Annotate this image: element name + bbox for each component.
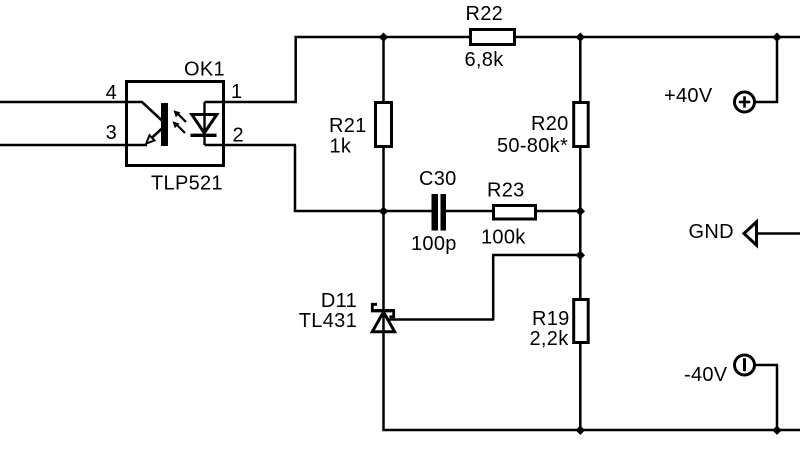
wire pin3 stub inside box: [128, 144, 147, 146]
svg-text:2: 2: [233, 125, 244, 147]
LED cathode bar: [191, 134, 217, 137]
cathode bar: [371, 309, 395, 312]
resistor R19: [574, 300, 589, 343]
svg-text:50-80k*: 50-80k*: [497, 135, 568, 157]
phototransistor emitter arrowhead: [146, 135, 154, 143]
wire GND lead: [756, 232, 800, 235]
svg-text:4: 4: [106, 82, 117, 104]
phototransistor base bar: [161, 103, 168, 146]
resistor R22: [471, 30, 515, 45]
wire R21 bottom: [382, 147, 385, 211]
node R19/bottom rail: [576, 426, 585, 435]
optocoupler OK1 body: [127, 82, 224, 166]
svg-text:-40V: -40V: [684, 364, 728, 386]
resistor R20: [574, 103, 589, 147]
terminal -40V: [735, 355, 755, 375]
LED vertical lead: [203, 102, 205, 145]
svg-text:R21: R21: [329, 115, 367, 137]
capacitor C30 plates: [432, 194, 439, 231]
wire R20 top: [579, 37, 582, 102]
resistor R23: [494, 206, 536, 220]
svg-text:100p: 100p: [411, 233, 457, 255]
LED top link: [205, 101, 225, 103]
right hook: [390, 311, 394, 317]
left hook: [372, 304, 377, 310]
wire pin2 to dropper: [224, 144, 296, 147]
svg-text:R19: R19: [532, 308, 570, 330]
wire +40V lead: [754, 101, 778, 104]
terminal GND: [744, 222, 757, 245]
svg-text:GND: GND: [689, 221, 734, 243]
wire -40V dropper: [776, 365, 779, 430]
phototransistor emitter: [150, 128, 163, 140]
svg-text:TLP521: TLP521: [151, 173, 223, 195]
svg-text:TL431: TL431: [299, 310, 357, 332]
LED bottom link: [205, 144, 225, 146]
svg-text:+40V: +40V: [664, 85, 713, 107]
node R21/top rail: [379, 33, 388, 42]
light arrow 2: [177, 125, 186, 134]
resistor R21: [376, 103, 392, 147]
node R20/top rail: [576, 33, 585, 42]
svg-text:6,8k: 6,8k: [465, 49, 505, 71]
wire middle rail seg3: [536, 210, 582, 213]
node R21/middle rail: [379, 207, 388, 216]
svg-text:1: 1: [231, 81, 242, 103]
wire ref horizontal upper: [492, 254, 582, 257]
wire R21 top: [382, 37, 385, 102]
svg-text:1k: 1k: [330, 136, 352, 158]
svg-text:D11: D11: [321, 290, 357, 312]
svg-text:R23: R23: [487, 180, 525, 202]
svg-text:C30: C30: [419, 168, 457, 190]
svg-text:2,2k: 2,2k: [530, 328, 570, 350]
wire ref vertical: [492, 255, 495, 320]
node ref/R20 column: [576, 251, 585, 260]
wire top rail: [295, 36, 800, 39]
node +40V riser/top rail: [772, 33, 781, 42]
wire bottom rail: [382, 429, 800, 432]
phototransistor collector: [128, 102, 163, 121]
svg-text:OK1: OK1: [184, 59, 225, 81]
svg-text:R22: R22: [466, 3, 504, 25]
wire R20 bottom column: [579, 147, 582, 299]
wire middle rail seg2: [446, 210, 493, 213]
TL431 D11 symbol: [371, 304, 395, 331]
wire pin2 dropper: [294, 145, 297, 212]
node -40V/bottom rail: [772, 426, 781, 435]
wire ref to TL431: [388, 318, 494, 321]
wire pin1 riser: [294, 36, 297, 102]
wire pin4 left: [0, 101, 126, 104]
anode triangle: [372, 312, 394, 332]
LED triangle: [192, 115, 217, 134]
wire middle rail seg1: [294, 210, 432, 213]
wire R19 bottom: [579, 343, 582, 430]
wire TL431 column: [382, 211, 385, 430]
wire pin3 left: [0, 144, 147, 147]
wire pin1 to riser: [224, 101, 297, 104]
wire -40V lead: [754, 364, 778, 367]
wire +40V riser: [776, 37, 779, 103]
svg-text:R20: R20: [531, 113, 569, 135]
node R20/middle rail: [576, 207, 585, 216]
terminal +40V: [735, 92, 755, 112]
light arrow 1: [178, 114, 187, 123]
svg-text:100k: 100k: [481, 227, 526, 249]
svg-text:3: 3: [106, 122, 117, 144]
